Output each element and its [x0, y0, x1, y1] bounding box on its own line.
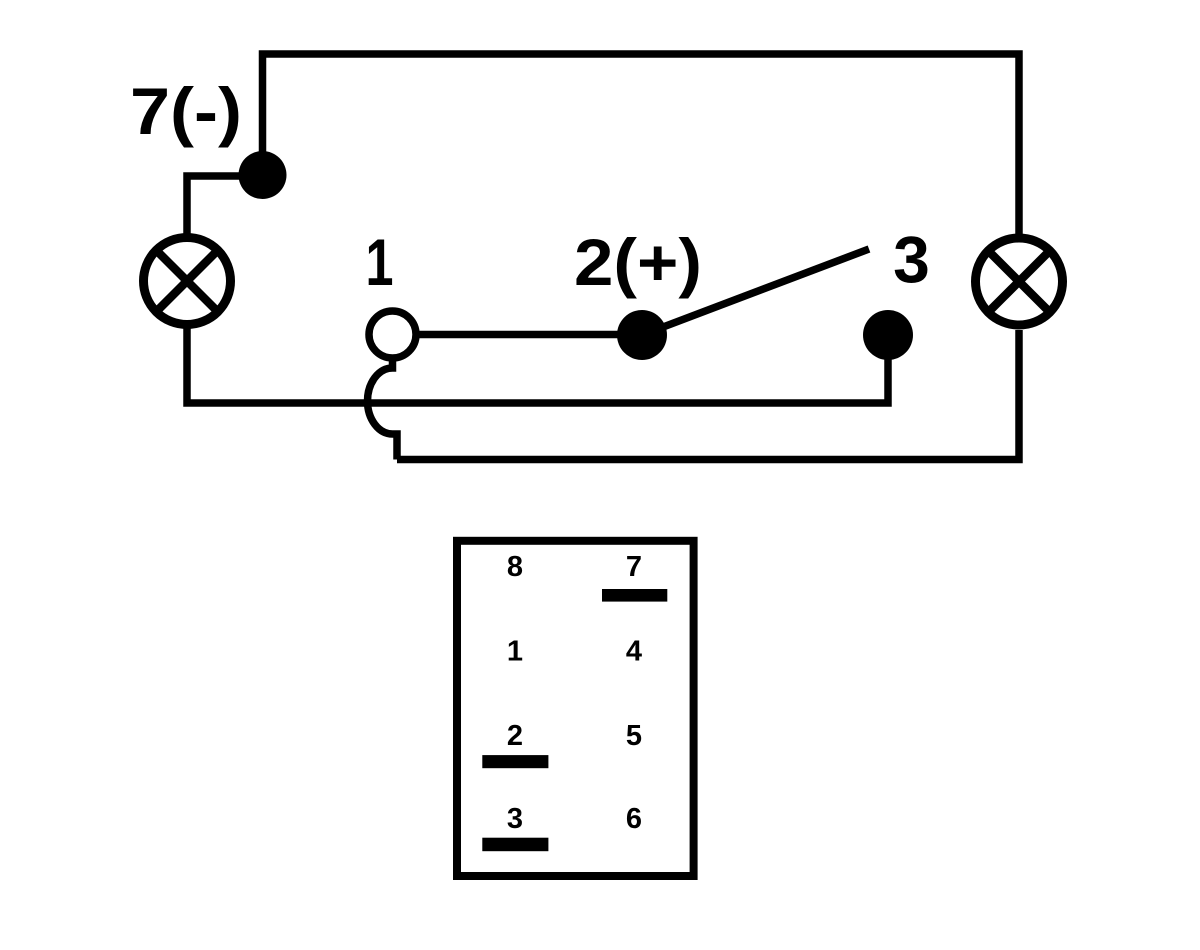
connector box outline [457, 541, 694, 876]
wire bottom return to right lamp [397, 330, 1019, 460]
pin 7 contact bar [602, 589, 667, 602]
wire terminal 1 to node 2 [415, 331, 642, 339]
node 7 junction [239, 151, 287, 199]
svg-text:3: 3 [507, 803, 523, 835]
svg-text:6: 6 [626, 803, 642, 835]
svg-text:5: 5 [626, 720, 642, 752]
wire node 7 to left lamp [187, 176, 263, 235]
svg-text:7(-): 7(-) [130, 74, 242, 148]
lamp right [976, 238, 1063, 325]
svg-text:2: 2 [507, 720, 523, 752]
switch lever from node 2 to tip [642, 249, 869, 335]
svg-text:4: 4 [626, 636, 642, 668]
svg-text:3: 3 [893, 223, 930, 297]
node 2 junction [617, 310, 667, 360]
svg-text:2(+): 2(+) [574, 225, 702, 299]
lamp left [144, 238, 231, 325]
wire hop from terminal 1 over bus [368, 356, 398, 460]
pin 2 contact bar [482, 755, 548, 768]
terminal 1 open circle [369, 311, 416, 358]
pin 3 contact bar [482, 838, 548, 852]
svg-text:1: 1 [507, 636, 523, 668]
svg-text:1: 1 [366, 225, 394, 299]
svg-text:8: 8 [507, 551, 523, 583]
node 3 junction [863, 310, 913, 360]
wire bottom bus left lamp to node 3 riser [187, 327, 888, 403]
wire top bus from node 7 to right lamp [263, 54, 1020, 235]
svg-text:7: 7 [626, 551, 642, 583]
